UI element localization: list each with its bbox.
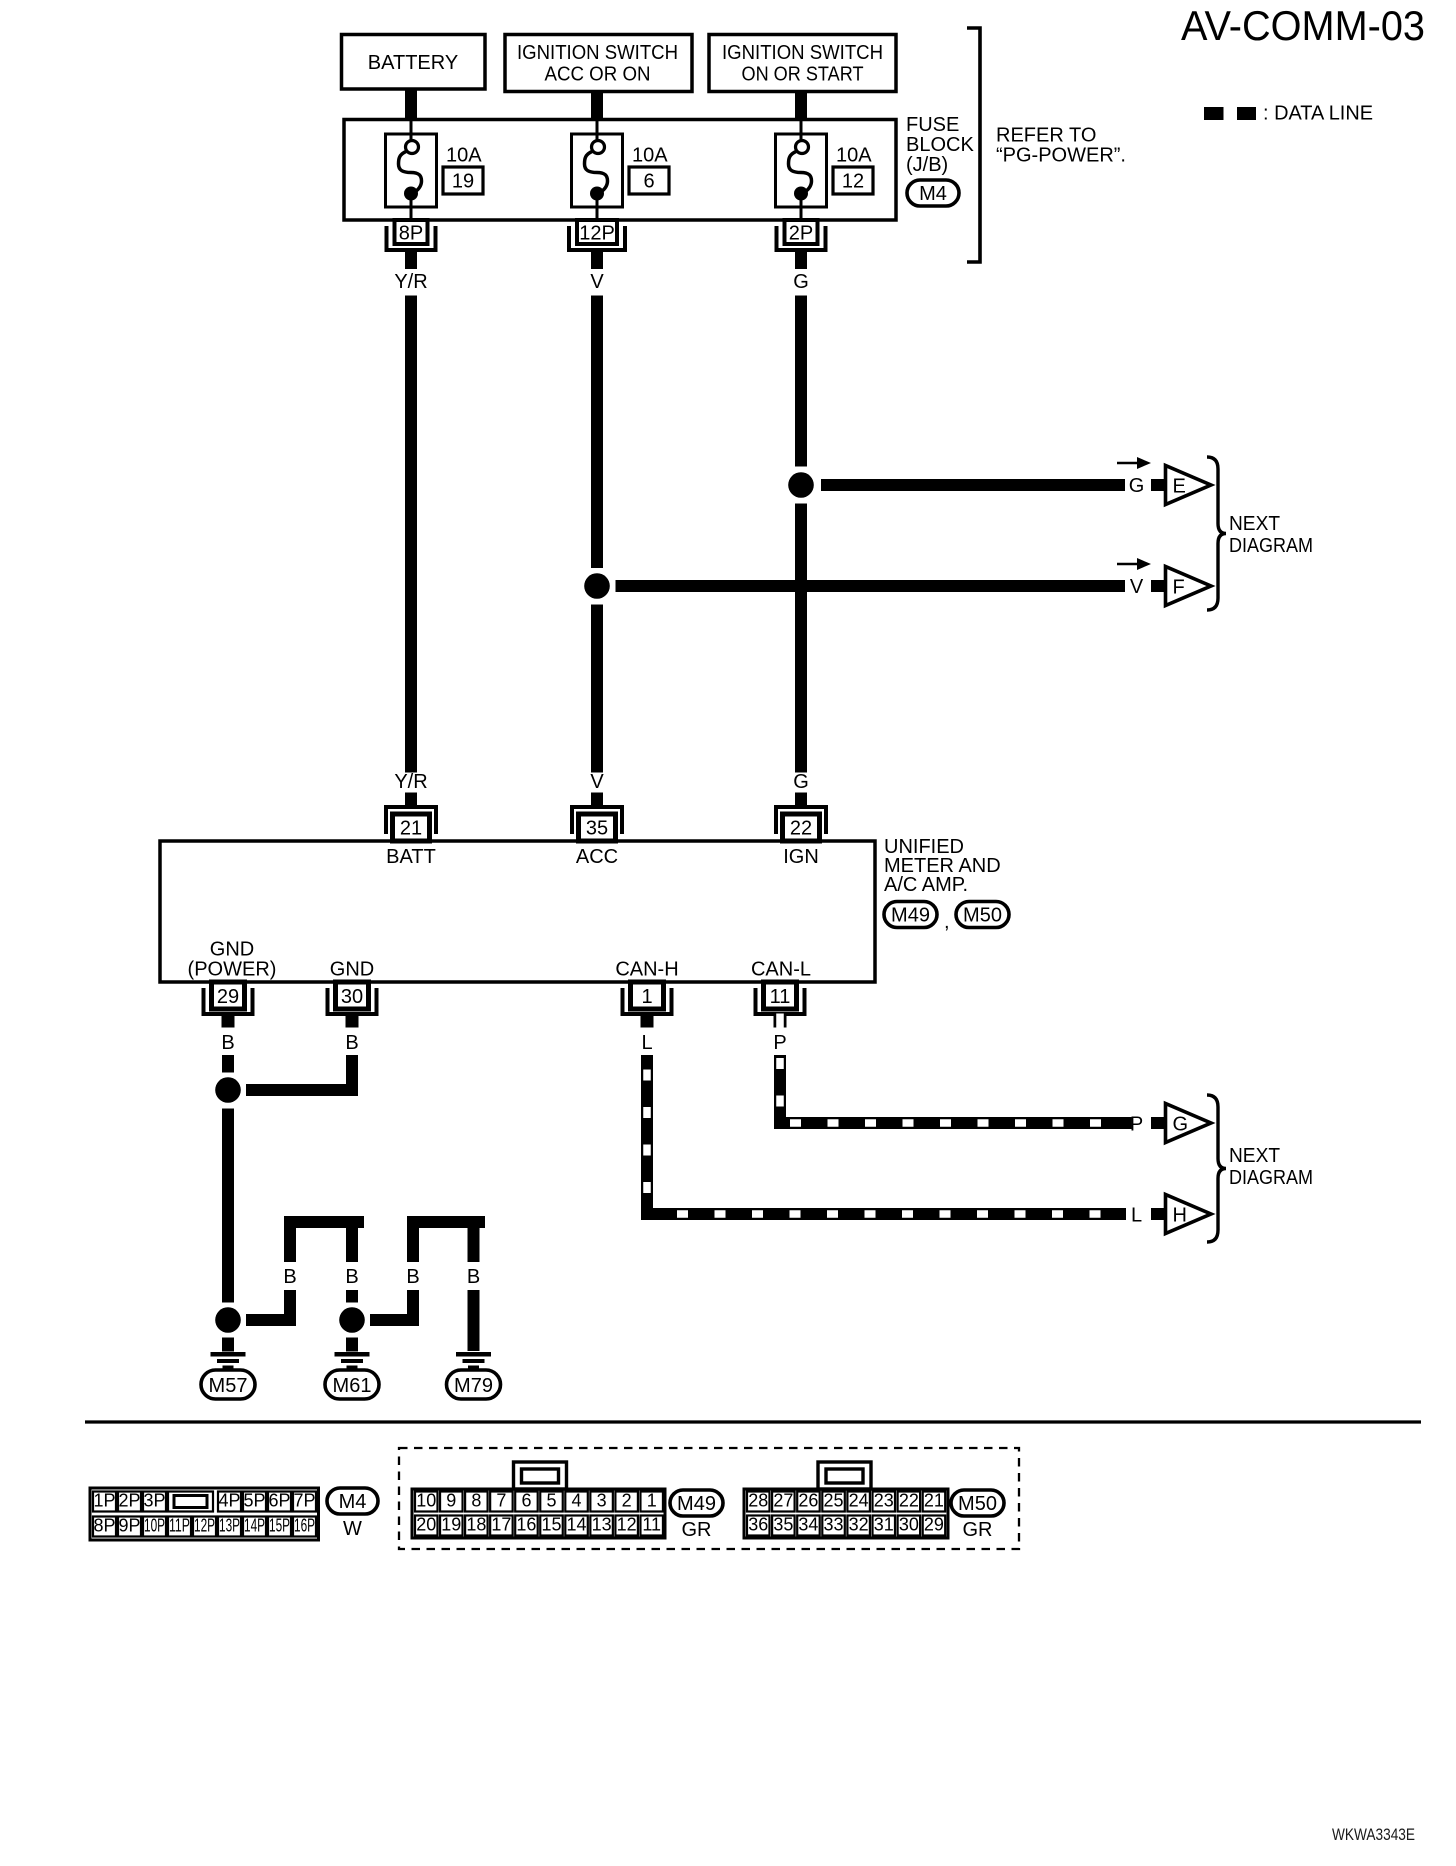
ground symbol M61 (335, 1352, 370, 1370)
connector table M49 cells (415, 1491, 663, 1536)
wire B n-link 2 (left vertical upper) (407, 1228, 419, 1262)
wire V upper stub (591, 252, 603, 269)
svg-text:6: 6 (643, 171, 654, 193)
label NEXT DIAGRAM (E/F) (1229, 513, 1313, 557)
svg-text:5P: 5P (243, 1491, 265, 1511)
svg-text:35: 35 (586, 818, 608, 840)
svg-text:27: 27 (773, 1491, 793, 1511)
wire G vertical run (below junction) (795, 504, 807, 773)
svg-text:13P: 13P (219, 1516, 240, 1536)
pin 11 connector (CAN-L) (756, 982, 805, 1014)
svg-text:G: G (793, 271, 809, 293)
wire P (CAN-L) data line down and right to G (774, 1055, 1132, 1129)
svg-text:23: 23 (874, 1491, 894, 1511)
svg-text:31: 31 (874, 1515, 894, 1535)
svg-text:29: 29 (924, 1515, 944, 1535)
junction dot on G wire (788, 472, 814, 498)
unified meter and A/C amp box (160, 841, 875, 982)
svg-text:34: 34 (798, 1515, 818, 1535)
note REFER TO PG-POWER (996, 125, 1126, 167)
svg-text:7P: 7P (293, 1491, 315, 1511)
connector table M4 cells (93, 1491, 316, 1537)
svg-text:2P: 2P (118, 1491, 140, 1511)
svg-text:10A: 10A (446, 145, 482, 167)
svg-text:GR: GR (963, 1519, 993, 1541)
svg-text:IGN: IGN (783, 846, 819, 868)
wire battery to fuse block (405, 88, 417, 121)
connector tab M49 (514, 1462, 567, 1489)
svg-text:ON OR START: ON OR START (742, 64, 864, 86)
svg-text:1P: 1P (93, 1491, 115, 1511)
svg-text:B: B (406, 1266, 419, 1288)
svg-text:25: 25 (824, 1491, 844, 1511)
wire L (CAN-H) data line down and right to H (641, 1055, 1126, 1220)
wire Y/R lower stub (405, 793, 417, 807)
svg-text:3P: 3P (143, 1491, 165, 1511)
svg-text:11P: 11P (169, 1516, 190, 1536)
svg-text:V: V (1130, 576, 1144, 598)
wire B junction to lower junction (222, 1109, 234, 1303)
svg-text:DIAGRAM: DIAGRAM (1229, 535, 1313, 557)
ground oval M79 (447, 1370, 501, 1399)
svg-text:F: F (1173, 577, 1185, 599)
svg-text:12: 12 (842, 171, 864, 193)
svg-text:GR: GR (682, 1519, 712, 1541)
ground oval M61 (325, 1370, 379, 1399)
wire V vertical run (below junction) (591, 605, 603, 773)
fuse block M4 outline (344, 120, 896, 221)
svg-text:29: 29 (217, 986, 239, 1008)
wire G vertical run (above junction) (795, 296, 807, 467)
svg-text:M50: M50 (963, 905, 1002, 927)
ignition switch ON box (709, 35, 896, 92)
junction dot B (ground M61) (339, 1307, 365, 1333)
stub into triangle E (1151, 479, 1166, 491)
svg-text:A/C AMP.: A/C AMP. (884, 874, 968, 896)
svg-text:“PG-POWER”.: “PG-POWER”. (996, 145, 1126, 167)
svg-text:M4: M4 (919, 183, 947, 205)
svg-text:FUSE: FUSE (906, 114, 959, 136)
svg-text:M49: M49 (891, 905, 930, 927)
wire ign acc to fuse block (591, 91, 603, 121)
svg-text:M49: M49 (677, 1493, 716, 1515)
svg-text:BATT: BATT (386, 846, 436, 868)
wire B n-link 2 (right vertical upper) (468, 1228, 480, 1262)
svg-text:10: 10 (416, 1491, 436, 1511)
fuse number box 12 (833, 167, 873, 194)
pin 21 connector (BATT) (386, 793, 436, 842)
label NEXT DIAGRAM (G/H) (1229, 1145, 1313, 1189)
label UNIFIED METER AND A/C AMP. (884, 836, 1001, 896)
svg-text:5: 5 (546, 1491, 556, 1511)
triangle H (next diagram) (1166, 1195, 1212, 1234)
svg-text:IGNITION SWITCH: IGNITION SWITCH (517, 42, 678, 64)
dashed enclosure for M49/M50 (399, 1448, 1019, 1549)
svg-text:16: 16 (516, 1515, 536, 1535)
svg-text:Y/R: Y/R (394, 271, 427, 293)
wire B horizontal M61 to n2 (370, 1314, 419, 1326)
ignition switch ACC box (505, 35, 692, 92)
wire B pin29 down to junction (222, 1055, 234, 1073)
pin 30 connector (GND) (328, 982, 377, 1014)
svg-text:4P: 4P (218, 1491, 240, 1511)
wire B n-link top bar 2 (407, 1216, 485, 1228)
fuse number box 19 (443, 167, 483, 194)
wire B n-link top bar 1 (284, 1216, 364, 1228)
svg-text:NEXT: NEXT (1229, 1145, 1280, 1167)
svg-text:B: B (345, 1032, 358, 1054)
svg-text:M4: M4 (339, 1491, 367, 1513)
svg-text:GND: GND (330, 959, 374, 981)
svg-text:22: 22 (899, 1491, 919, 1511)
wire B stub below pin 29 (222, 1014, 235, 1028)
junction dot on V wire (584, 573, 610, 599)
pin 22 connector (IGN) (776, 793, 826, 842)
svg-text:(J/B): (J/B) (906, 154, 948, 176)
wire B n-link 2 (left vertical lower) (407, 1290, 419, 1326)
connector 12P (fuse block) (569, 220, 625, 250)
connector table M4 outline (90, 1488, 319, 1540)
connector 8P (fuse block) (387, 220, 436, 250)
junction dot B (ground M57) (215, 1307, 241, 1333)
svg-text:E: E (1173, 476, 1186, 498)
svg-text:3: 3 (597, 1491, 607, 1511)
svg-text:G: G (793, 771, 809, 793)
svg-text:CAN-H: CAN-H (615, 959, 678, 981)
svg-text:14P: 14P (244, 1516, 265, 1536)
svg-text:G: G (1129, 475, 1145, 497)
stub into triangle F (1151, 580, 1166, 592)
svg-text:P: P (1130, 1114, 1143, 1136)
svg-text:L: L (641, 1032, 652, 1054)
svg-text:12P: 12P (194, 1516, 215, 1536)
connector oval M4 (fuse block) (907, 180, 959, 206)
svg-text:P: P (773, 1032, 786, 1054)
connector table M50 outline (744, 1489, 948, 1538)
svg-text:11: 11 (642, 1515, 661, 1535)
stub into triangle G (1151, 1117, 1166, 1129)
triangle F (next diagram) (1166, 567, 1212, 606)
svg-text:L: L (1131, 1205, 1142, 1227)
brace next diagram (G/H) (1207, 1095, 1226, 1242)
svg-text:28: 28 (748, 1491, 768, 1511)
svg-text:36: 36 (748, 1515, 768, 1535)
wire G upper stub (795, 252, 807, 269)
svg-text:24: 24 (849, 1491, 869, 1511)
svg-text:ACC: ACC (576, 846, 618, 868)
svg-text:32: 32 (849, 1515, 869, 1535)
wire G branch to E (821, 479, 1125, 491)
svg-text:GND: GND (210, 939, 254, 961)
svg-text:2P: 2P (789, 223, 813, 245)
svg-text:2: 2 (622, 1491, 632, 1511)
svg-text:30: 30 (899, 1515, 919, 1535)
wire V branch to F (616, 580, 1126, 592)
svg-text:V: V (590, 271, 604, 293)
svg-text:35: 35 (773, 1515, 793, 1535)
connector 2P (fuse block) (777, 220, 826, 250)
stub into triangle H (1151, 1208, 1166, 1220)
svg-text:AV-COMM-03: AV-COMM-03 (1181, 2, 1425, 49)
oval M49 (table) (670, 1490, 723, 1516)
svg-text:1: 1 (647, 1491, 657, 1511)
svg-text:13: 13 (592, 1515, 612, 1535)
ground oval M57 (201, 1370, 255, 1399)
svg-text:1: 1 (641, 986, 652, 1008)
svg-text:6P: 6P (268, 1491, 290, 1511)
svg-text:15P: 15P (269, 1516, 290, 1536)
wire B n-link (left vertical lower) (284, 1290, 296, 1326)
svg-text:REFER TO: REFER TO (996, 125, 1096, 147)
svg-text:G: G (1173, 1114, 1189, 1136)
wire V vertical run (above junction) (591, 296, 603, 569)
connector table M49 outline (412, 1489, 665, 1538)
separator line (85, 1420, 1421, 1423)
svg-text:12P: 12P (579, 223, 615, 245)
svg-text:DIAGRAM: DIAGRAM (1229, 1167, 1313, 1189)
svg-text:8P: 8P (93, 1516, 115, 1536)
label FUSE BLOCK (J/B) (906, 114, 974, 176)
fuse 10A #12 (776, 121, 827, 220)
svg-text:M61: M61 (333, 1375, 372, 1397)
pin 35 connector (ACC) (572, 793, 622, 842)
svg-text:19: 19 (452, 171, 474, 193)
svg-text:H: H (1173, 1205, 1187, 1227)
svg-text:,: , (944, 911, 950, 933)
connector tab M50 (818, 1462, 871, 1489)
svg-text:14: 14 (567, 1515, 587, 1535)
connector table M50 cells (747, 1491, 945, 1536)
svg-text:V: V (590, 771, 604, 793)
svg-text:IGNITION SWITCH: IGNITION SWITCH (722, 42, 883, 64)
wire ign start to fuse block (795, 91, 807, 121)
brace next diagram (E/F) (1207, 457, 1226, 610)
svg-text:6: 6 (521, 1491, 531, 1511)
pin 1 connector (CAN-H) (623, 982, 672, 1014)
wire B horizontal pin30 to junction (246, 1084, 352, 1096)
svg-text:10A: 10A (836, 145, 872, 167)
wire B n-link M57 to M61 (left vertical) (284, 1228, 296, 1262)
wire Y/R upper stub (405, 252, 417, 269)
svg-text:22: 22 (790, 818, 812, 840)
svg-text:17: 17 (491, 1515, 511, 1535)
svg-text:8P: 8P (399, 223, 423, 245)
svg-text:B: B (221, 1032, 234, 1054)
wire stub to ground M61 (346, 1338, 358, 1352)
svg-text:W: W (343, 1518, 362, 1540)
wire P stub below pin 11 (dashed) (774, 1014, 787, 1029)
wire B pin30 down (346, 1055, 358, 1096)
svg-text:19: 19 (441, 1515, 461, 1535)
fuse 10A #19 (386, 121, 437, 220)
svg-text:20: 20 (416, 1515, 436, 1535)
svg-text:M57: M57 (209, 1375, 248, 1397)
triangle G (next diagram) (1166, 1104, 1212, 1143)
connector oval M49 (884, 902, 937, 928)
svg-text:CAN-L: CAN-L (751, 959, 811, 981)
svg-text:30: 30 (341, 986, 363, 1008)
wire B stub below pin 30 (346, 1014, 359, 1028)
wire L stub below pin 1 (641, 1014, 654, 1028)
wire Y/R vertical run (405, 296, 417, 773)
svg-text:12: 12 (617, 1515, 637, 1535)
junction dot B (pin29/pin30) (215, 1077, 241, 1103)
svg-text:9P: 9P (118, 1516, 140, 1536)
triangle E (next diagram) (1166, 466, 1212, 505)
svg-text:B: B (345, 1266, 358, 1288)
svg-text:WKWA3343E: WKWA3343E (1332, 1826, 1415, 1844)
svg-text:8: 8 (471, 1491, 481, 1511)
svg-text:4: 4 (572, 1491, 582, 1511)
svg-text:NEXT: NEXT (1229, 513, 1280, 535)
wire G lower stub (795, 793, 807, 807)
wire B n-link (right vertical lower) (346, 1290, 358, 1303)
svg-text:M50: M50 (958, 1493, 997, 1515)
wire V lower stub (591, 793, 603, 807)
ground symbol M57 (211, 1352, 246, 1370)
svg-text:BLOCK: BLOCK (906, 134, 974, 156)
battery box (342, 35, 486, 90)
arrow above G branch (1117, 457, 1151, 469)
svg-text:26: 26 (798, 1491, 818, 1511)
svg-text:33: 33 (824, 1515, 844, 1535)
svg-text:BATTERY: BATTERY (368, 52, 458, 74)
svg-text:: DATA LINE: : DATA LINE (1263, 103, 1373, 125)
svg-text:16P: 16P (294, 1516, 315, 1536)
svg-text:10P: 10P (144, 1516, 165, 1536)
bracket fuse block group (967, 28, 980, 262)
svg-text:M79: M79 (454, 1375, 493, 1397)
connector oval M50 (956, 902, 1009, 928)
oval M50 (table) (951, 1490, 1004, 1516)
svg-text:10A: 10A (632, 145, 668, 167)
wire B n-link (right vertical upper) (346, 1228, 358, 1262)
wire stub to ground M57 (222, 1338, 234, 1352)
svg-text:(POWER): (POWER) (188, 959, 277, 981)
ground symbol M79 (456, 1352, 491, 1370)
svg-text:Y/R: Y/R (394, 771, 427, 793)
svg-text:11: 11 (770, 986, 791, 1008)
svg-text:21: 21 (924, 1491, 944, 1511)
svg-text:7: 7 (496, 1491, 506, 1511)
fuse number box 6 (629, 167, 669, 194)
svg-text:ACC OR ON: ACC OR ON (545, 64, 651, 86)
svg-text:15: 15 (541, 1515, 561, 1535)
wire B n-link 2 (right vertical to ground M79) (468, 1290, 480, 1351)
oval M4 (table) (327, 1488, 378, 1514)
legend data line symbol (1204, 107, 1256, 120)
arrow above V branch (1117, 558, 1151, 570)
wire B horizontal dot2 to n1 (246, 1314, 296, 1326)
svg-text:B: B (283, 1266, 296, 1288)
svg-text:18: 18 (466, 1515, 486, 1535)
svg-text:21: 21 (400, 818, 422, 840)
fuse 10A #6 (572, 121, 623, 220)
label GND (POWER) (188, 939, 277, 981)
svg-text:B: B (467, 1266, 480, 1288)
pin 29 connector (GND POWER) (204, 982, 253, 1014)
svg-text:9: 9 (446, 1491, 456, 1511)
